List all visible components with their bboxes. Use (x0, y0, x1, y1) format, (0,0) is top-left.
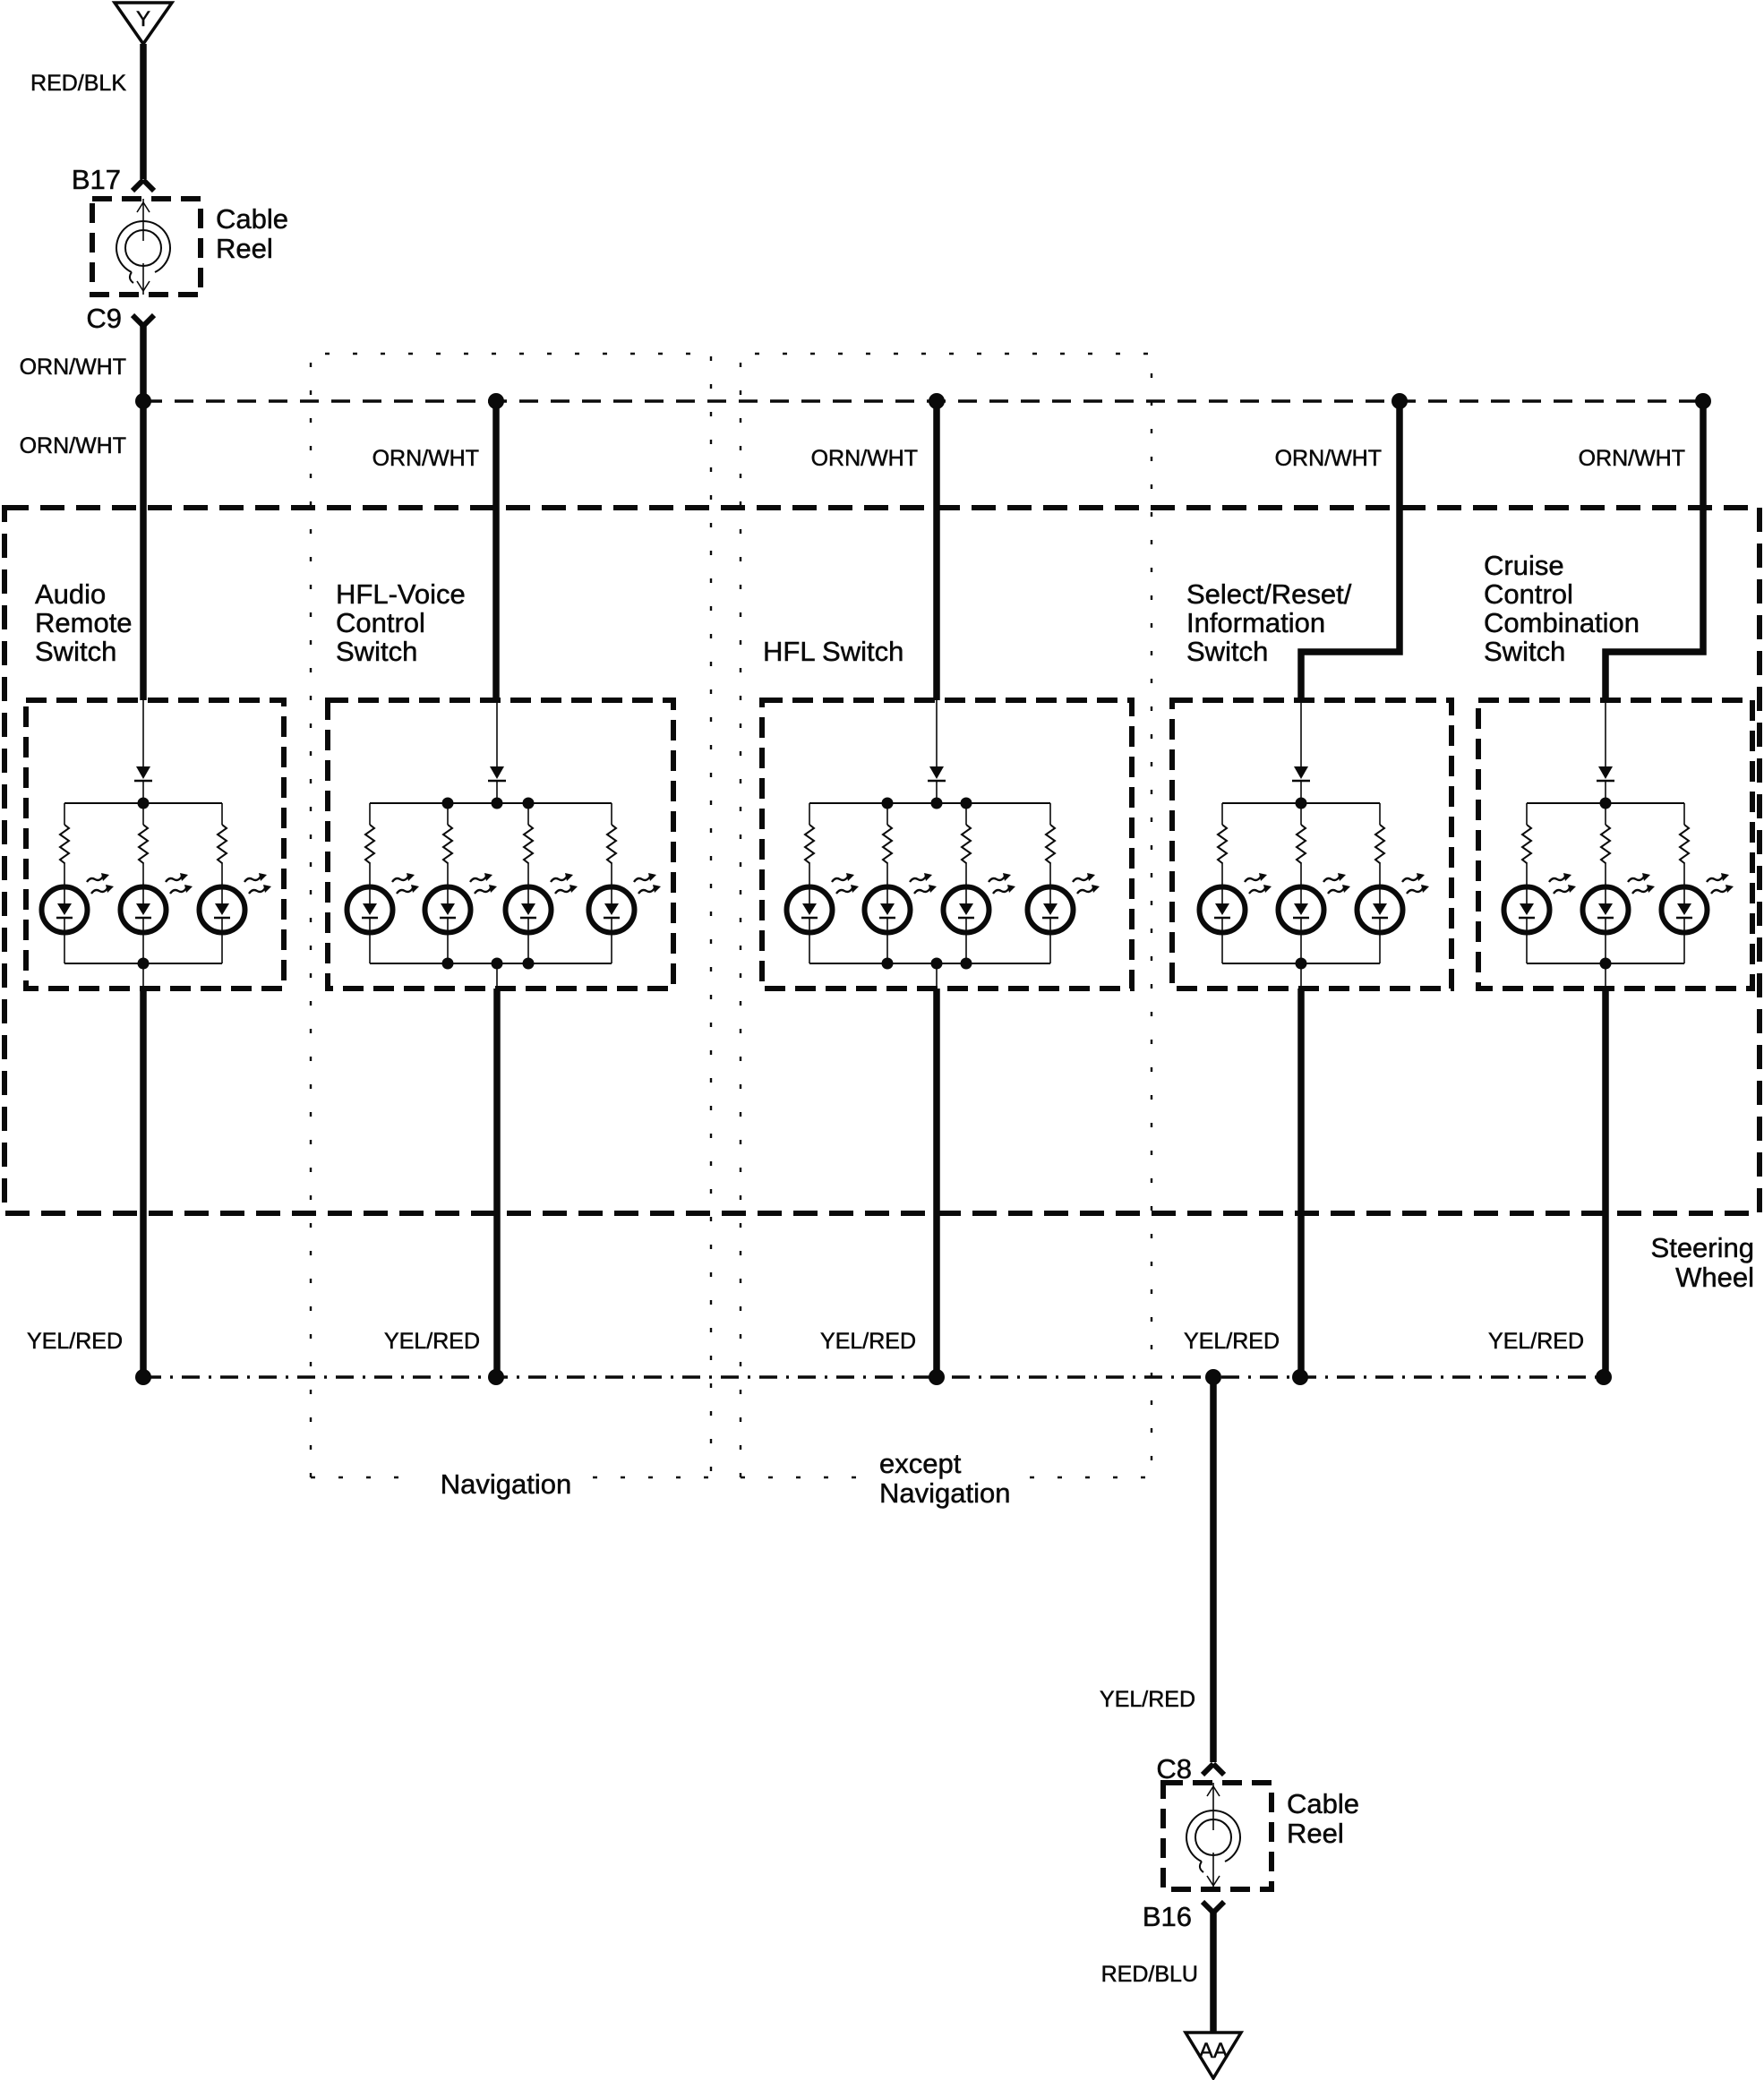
wire rail to box bottom SW3 (936, 963, 938, 989)
resistor SW4 R2 (1297, 825, 1306, 863)
junction on ORN/WHT bus at x=1046 (929, 393, 945, 409)
svg-text:YEL/RED: YEL/RED (1184, 1329, 1280, 1354)
switch block: Select/Reset/ Information Switch (1172, 401, 1451, 1377)
wire diode to top rail SW4 (1300, 781, 1302, 803)
wire LED to bottom rail SW3-2 (886, 918, 888, 963)
label HFL Switch (763, 636, 903, 667)
node top rail SW2 x=500 (442, 798, 454, 809)
wire diode to top rail SW1 (142, 781, 144, 803)
resistor SW5 R2 (1601, 825, 1610, 863)
wire resistor to LED SW2-4 (611, 862, 612, 903)
navigation option box (dotted) (311, 354, 711, 1477)
resistor SW1 R2 (139, 825, 148, 863)
label Audio Remote Switch (35, 578, 133, 667)
svg-text:B16: B16 (1143, 1901, 1192, 1932)
wire branch SW3-3 upper (965, 803, 967, 825)
wire branch SW5-3 upper (1683, 803, 1685, 825)
wire bottom rail SW2 (370, 963, 612, 964)
wire branch SW2-4 upper (611, 803, 612, 825)
LED SW3 D1 (787, 873, 860, 933)
wire branch SW3-2 upper (886, 803, 888, 825)
svg-text:Switch: Switch (336, 636, 417, 667)
LED SW5 D2 (1583, 873, 1656, 933)
svg-text:ORN/WHT: ORN/WHT (811, 446, 918, 471)
wire top rail SW1 (64, 802, 222, 804)
wire branch SW4-1 upper (1221, 803, 1223, 825)
switch block: HFL-Voice Control Switch (328, 401, 673, 1377)
junction on YEL/RED bus at x=1452 (1292, 1369, 1308, 1385)
svg-text:HFL Switch: HFL Switch (763, 636, 903, 667)
svg-text:Navigation: Navigation (879, 1477, 1010, 1509)
wire resistor to LED SW3-4 (1049, 862, 1051, 903)
junction on ORN/WHT bus at x=554 (488, 393, 504, 409)
wire internal feed SW5 (1605, 700, 1606, 766)
node top rail SW2 x=555 (492, 798, 503, 809)
svg-text:C8: C8 (1156, 1753, 1192, 1785)
wire ORN/WHT feed to SW3 (933, 401, 940, 700)
svg-text:Information: Information (1186, 607, 1325, 638)
wire ORN/WHT feed to SW1 (140, 401, 147, 700)
node bottom rail SW3 x=1046 (931, 958, 943, 970)
wire LED to bottom rail SW4-1 (1221, 918, 1223, 963)
wire branch SW5-2 upper (1605, 803, 1606, 825)
diode SW2 input (488, 766, 506, 781)
resistor SW2 R4 (607, 825, 616, 863)
node top rail SW1 center (138, 798, 150, 809)
connector AA (sheet link triangle) (1186, 2033, 1241, 2078)
wire bus YEL/RED (bottom, dashed) (143, 1375, 1604, 1379)
switch body box SW1 (dashed) (26, 700, 284, 989)
node top rail SW3 x=1079 (961, 798, 972, 809)
wire branch SW4-3 upper (1379, 803, 1381, 825)
switch body box SW4 (dashed) (1172, 700, 1451, 989)
switch block: Audio Remote Switch (20, 401, 284, 1377)
wire resistor to LED SW4-2 (1300, 862, 1302, 903)
LED SW4 D1 (1200, 873, 1272, 933)
wire ORN/WHT from C9 to bus (140, 326, 147, 401)
wire YEL/RED return SW5 (1602, 989, 1609, 1377)
wire YEL/RED return SW2 (493, 989, 501, 1377)
resistor SW3 R3 (962, 825, 971, 863)
junction on YEL/RED bus at x=1791 (1596, 1369, 1612, 1385)
wire resistor to LED SW3-1 (809, 862, 810, 903)
wire LED to bottom rail SW3-3 (965, 918, 967, 963)
svg-text:C9: C9 (86, 303, 122, 334)
wire internal feed SW3 (936, 700, 938, 766)
LED SW1 D3 (200, 873, 272, 933)
svg-text:ORN/WHT: ORN/WHT (20, 433, 126, 458)
wire LED to bottom rail SW4-2 (1300, 918, 1302, 963)
junction on YEL/RED bus at x=160 (135, 1369, 151, 1385)
wire internal feed SW2 (496, 700, 498, 766)
svg-text:YEL/RED: YEL/RED (27, 1329, 123, 1354)
LED SW2 D4 (589, 873, 662, 933)
wire bottom rail SW5 (1527, 963, 1684, 964)
wire LED to bottom rail SW3-1 (809, 918, 810, 963)
junction on YEL/RED bus at x=1355 (1205, 1369, 1221, 1385)
wire resistor to LED SW2-1 (369, 862, 371, 903)
node top rail SW5 center (1600, 798, 1612, 809)
wire LED to bottom rail SW1-1 (64, 918, 65, 963)
wire resistor to LED SW4-1 (1221, 862, 1223, 903)
svg-text:YEL/RED: YEL/RED (1488, 1329, 1584, 1354)
wire LED to bottom rail SW2-4 (611, 918, 612, 963)
wire resistor to LED SW5-2 (1605, 862, 1606, 903)
wire YEL/RED return SW3 (933, 989, 940, 1377)
wire top rail SW2 (370, 802, 612, 804)
svg-text:Remote: Remote (35, 607, 133, 638)
wire resistor to LED SW5-1 (1526, 862, 1528, 903)
node bottom rail SW1 center (138, 958, 150, 970)
svg-text:RED/BLK: RED/BLK (30, 71, 126, 96)
junction on YEL/RED bus at x=554 (488, 1369, 504, 1385)
wire branch SW3-4 upper (1049, 803, 1051, 825)
cable reel (lower) (1163, 1783, 1272, 1889)
LED SW3 D3 (944, 873, 1016, 933)
wire branch SW4-2 upper (1300, 803, 1302, 825)
wire resistor to LED SW2-3 (527, 862, 529, 903)
resistor SW3 R1 (805, 825, 814, 863)
wire internal feed SW4 (1300, 700, 1302, 766)
switch block: HFL Switch (762, 401, 1132, 1377)
LED SW5 D3 (1662, 873, 1734, 933)
wire LED to bottom rail SW1-3 (221, 918, 223, 963)
wire LED to bottom rail SW1-2 (142, 918, 144, 963)
svg-text:ORN/WHT: ORN/WHT (20, 355, 126, 380)
svg-text:ORN/WHT: ORN/WHT (1275, 446, 1382, 471)
svg-text:Y: Y (136, 7, 150, 31)
node bottom rail SW4 center (1296, 958, 1307, 970)
node top rail SW2 x=590 (523, 798, 535, 809)
svg-text:AA: AA (1199, 2039, 1228, 2063)
junction on ORN/WHT bus at x=1563 (1392, 393, 1408, 409)
junction on ORN/WHT bus at x=1902 (1695, 393, 1711, 409)
wire resistor to LED SW1-1 (64, 862, 65, 903)
svg-text:Combination: Combination (1484, 607, 1640, 638)
resistor SW4 R1 (1218, 825, 1227, 863)
diode SW4 input (1292, 766, 1310, 781)
svg-text:Control: Control (1484, 578, 1573, 610)
cable reel (upper) (92, 199, 201, 295)
node bottom rail SW2 x=590 (523, 958, 535, 970)
svg-text:YEL/RED: YEL/RED (820, 1329, 916, 1354)
resistor SW1 R3 (218, 825, 227, 863)
label HFL-Voice Control Switch (336, 578, 466, 667)
connector B17 (male fork) (133, 180, 154, 191)
wire branch SW5-1 upper (1526, 803, 1528, 825)
node bottom rail SW3 x=1079 (961, 958, 972, 970)
node top rail SW3 x=1046 (931, 798, 943, 809)
LED SW2 D1 (347, 873, 420, 933)
node bottom rail SW3 x=991 (882, 958, 894, 970)
wire ORN/WHT feed to SW5 (1606, 401, 1703, 700)
wire rail to box bottom SW5 (1605, 963, 1606, 989)
wire RED/BLK (140, 44, 147, 179)
node top rail SW3 x=991 (882, 798, 894, 809)
LED SW4 D3 (1357, 873, 1430, 933)
wire LED to bottom rail SW3-4 (1049, 918, 1051, 963)
junction on ORN/WHT bus at x=160 (135, 393, 151, 409)
svg-text:Reel: Reel (216, 233, 273, 264)
except-navigation option box (dotted) (741, 354, 1152, 1477)
svg-text:YEL/RED: YEL/RED (384, 1329, 480, 1354)
wire YEL/RED drop to C8 (1210, 1377, 1217, 1762)
svg-text:B17: B17 (72, 164, 121, 195)
svg-text:Switch: Switch (35, 636, 116, 667)
node bottom rail SW5 center (1600, 958, 1612, 970)
svg-text:Steering: Steering (1651, 1232, 1754, 1263)
connector B16 (female fork) (1203, 1902, 1224, 1913)
wire branch SW1-1 upper (64, 803, 65, 825)
wire bus ORN/WHT (top, dashed) (143, 399, 1703, 403)
svg-text:ORN/WHT: ORN/WHT (1579, 446, 1685, 471)
LED SW2 D3 (506, 873, 578, 933)
svg-text:YEL/RED: YEL/RED (1100, 1687, 1195, 1712)
svg-text:Cable: Cable (1287, 1788, 1359, 1819)
wire RED/BLU (1210, 1913, 1217, 2038)
diode SW1 input (134, 766, 152, 781)
LED SW4 D2 (1279, 873, 1351, 933)
resistor SW2 R2 (443, 825, 452, 863)
svg-text:Control: Control (336, 607, 425, 638)
svg-text:Cable: Cable (216, 203, 288, 235)
wire branch SW1-2 upper (142, 803, 144, 825)
wire resistor to LED SW2-2 (447, 862, 449, 903)
wire resistor to LED SW5-3 (1683, 862, 1685, 903)
resistor SW5 R3 (1680, 825, 1689, 863)
wire LED to bottom rail SW2-1 (369, 918, 371, 963)
wire LED to bottom rail SW4-3 (1379, 918, 1381, 963)
svg-text:RED/BLU: RED/BLU (1101, 1962, 1198, 1987)
resistor SW4 R3 (1375, 825, 1384, 863)
steering wheel enclosure (dashed) (4, 508, 1760, 1213)
wire LED to bottom rail SW2-3 (527, 918, 529, 963)
wire branch SW3-1 upper (809, 803, 810, 825)
wire resistor to LED SW4-3 (1379, 862, 1381, 903)
wire ORN/WHT feed to SW4 (1301, 401, 1400, 700)
svg-text:Navigation: Navigation (441, 1468, 571, 1500)
svg-text:except: except (879, 1448, 962, 1479)
svg-text:Select/Reset/: Select/Reset/ (1186, 578, 1352, 610)
wire ORN/WHT feed to SW2 (492, 401, 500, 700)
resistor SW3 R2 (883, 825, 892, 863)
wire bottom rail SW3 (809, 963, 1050, 964)
LED SW1 D1 (42, 873, 115, 933)
switch body box SW2 (dashed) (328, 700, 673, 989)
LED SW5 D1 (1504, 873, 1577, 933)
connector C8 (male fork) (1203, 1764, 1224, 1775)
node bottom rail SW2 x=500 (442, 958, 454, 970)
wire top rail SW3 (809, 802, 1050, 804)
wire resistor to LED SW3-3 (965, 862, 967, 903)
wire rail to box bottom SW4 (1300, 963, 1302, 989)
wire bottom rail SW1 (64, 963, 222, 964)
wire rail to box bottom SW2 (496, 963, 498, 989)
junction on YEL/RED bus at x=1046 (929, 1369, 945, 1385)
wire branch SW2-2 upper (447, 803, 449, 825)
wire LED to bottom rail SW2-2 (447, 918, 449, 963)
wire top rail SW5 (1527, 802, 1684, 804)
svg-text:Cruise: Cruise (1484, 550, 1564, 581)
switch body box SW5 (dashed) (1478, 700, 1752, 989)
svg-text:Switch: Switch (1186, 636, 1268, 667)
svg-text:Switch: Switch (1484, 636, 1565, 667)
switch body box SW3 (dashed) (762, 700, 1132, 989)
LED SW3 D4 (1028, 873, 1100, 933)
wire branch SW2-1 upper (369, 803, 371, 825)
resistor SW1 R1 (60, 825, 69, 863)
svg-text:Audio: Audio (35, 578, 106, 610)
wire YEL/RED return SW1 (140, 989, 147, 1377)
resistor SW5 R1 (1522, 825, 1531, 863)
wire internal feed SW1 (142, 700, 144, 766)
svg-text:HFL-Voice: HFL-Voice (336, 578, 466, 610)
resistor SW3 R4 (1046, 825, 1055, 863)
LED SW2 D2 (425, 873, 498, 933)
LED SW1 D2 (121, 873, 193, 933)
wire resistor to LED SW1-3 (221, 862, 223, 903)
resistor SW2 R3 (524, 825, 533, 863)
wire LED to bottom rail SW5-1 (1526, 918, 1528, 963)
wire LED to bottom rail SW5-2 (1605, 918, 1606, 963)
diode SW5 input (1597, 766, 1614, 781)
node bottom rail SW2 x=555 (492, 958, 503, 970)
wire resistor to LED SW1-2 (142, 862, 144, 903)
label Cruise Control Combination Switch (1484, 550, 1640, 667)
resistor SW2 R1 (365, 825, 374, 863)
wire resistor to LED SW3-2 (886, 862, 888, 903)
wire rail to box bottom SW1 (142, 963, 144, 989)
connector Y (sheet link triangle) (115, 3, 172, 44)
svg-text:Reel: Reel (1287, 1818, 1344, 1849)
LED SW3 D2 (865, 873, 938, 933)
svg-text:ORN/WHT: ORN/WHT (372, 446, 479, 471)
node top rail SW4 center (1296, 798, 1307, 809)
label Select/Reset/ Information Switch (1186, 578, 1352, 667)
diode SW3 input (928, 766, 946, 781)
switch block: Cruise Control Combination Switch (1478, 401, 1752, 1377)
connector C9 (female fork) (133, 315, 154, 326)
wire top rail SW4 (1222, 802, 1380, 804)
svg-text:Wheel: Wheel (1675, 1262, 1754, 1293)
wire diode to top rail SW2 (496, 781, 498, 803)
wire LED to bottom rail SW5-3 (1683, 918, 1685, 963)
wire YEL/RED return SW4 (1297, 989, 1305, 1377)
wire bottom rail SW4 (1222, 963, 1380, 964)
wire diode to top rail SW5 (1605, 781, 1606, 803)
wire branch SW2-3 upper (527, 803, 529, 825)
wire branch SW1-3 upper (221, 803, 223, 825)
wire diode to top rail SW3 (936, 781, 938, 803)
